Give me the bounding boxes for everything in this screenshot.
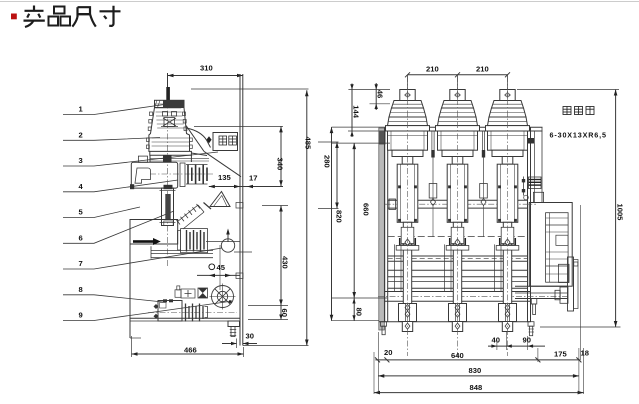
svg-text:830: 830 bbox=[469, 366, 482, 375]
svg-text:7: 7 bbox=[79, 259, 83, 268]
svg-text:2: 2 bbox=[79, 131, 83, 140]
svg-text:485: 485 bbox=[304, 137, 313, 150]
svg-text:8: 8 bbox=[79, 285, 83, 294]
svg-text:1005: 1005 bbox=[616, 204, 625, 222]
svg-text:848: 848 bbox=[470, 383, 483, 392]
svg-text:30: 30 bbox=[246, 332, 254, 341]
svg-text:20: 20 bbox=[384, 348, 392, 357]
svg-text:430: 430 bbox=[281, 256, 290, 269]
svg-text:340: 340 bbox=[276, 158, 285, 171]
svg-text:210: 210 bbox=[426, 65, 439, 74]
svg-text:80: 80 bbox=[355, 308, 364, 316]
svg-text:210: 210 bbox=[476, 65, 489, 74]
svg-text:820: 820 bbox=[335, 210, 344, 223]
svg-text:144: 144 bbox=[352, 105, 361, 118]
svg-text:640: 640 bbox=[451, 351, 464, 360]
svg-text:40: 40 bbox=[492, 336, 500, 345]
svg-text:46: 46 bbox=[376, 90, 385, 98]
svg-text:3: 3 bbox=[79, 156, 83, 165]
svg-text:6-30X13XR6,5: 6-30X13XR6,5 bbox=[550, 131, 607, 140]
svg-text:6: 6 bbox=[79, 234, 83, 243]
svg-text:466: 466 bbox=[184, 346, 197, 355]
svg-text:175: 175 bbox=[554, 350, 567, 359]
svg-text:17: 17 bbox=[249, 174, 257, 183]
svg-text:135: 135 bbox=[218, 173, 231, 182]
svg-text:60: 60 bbox=[280, 309, 289, 317]
svg-text:310: 310 bbox=[200, 64, 213, 73]
svg-text:660: 660 bbox=[362, 203, 371, 216]
svg-text:280: 280 bbox=[323, 155, 332, 168]
svg-text:45: 45 bbox=[217, 263, 226, 272]
svg-text:90: 90 bbox=[523, 336, 531, 345]
svg-text:9: 9 bbox=[79, 311, 83, 320]
svg-text:18: 18 bbox=[581, 349, 589, 358]
